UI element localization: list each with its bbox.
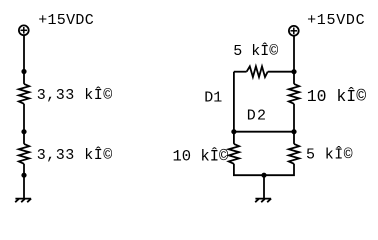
node right A (junction dot) (291, 69, 296, 74)
svg-text:3,33 kÎ©: 3,33 kÎ© (37, 146, 113, 164)
resistor R5 10 k (bottom left) (229, 144, 239, 164)
wire middle horizontal (234, 131, 294, 133)
wire horizontal top left stub (234, 71, 247, 73)
terminal V2 (+15VDC source, right) (289, 26, 299, 36)
node left C (junction dot) (21, 173, 26, 178)
wire bottom left corner (234, 164, 264, 175)
wire right rail lower (293, 132, 295, 144)
wire left rail middle (23, 104, 25, 144)
svg-text:10 kÎ©: 10 kÎ© (173, 147, 230, 165)
ground GND2 (right) (255, 199, 271, 203)
resistor R4 10 k (right rail) (289, 84, 299, 104)
wire right rail middle (293, 104, 295, 132)
wire left branch to R5 (233, 132, 235, 144)
node right D (junction dot) (261, 173, 266, 178)
resistor R6 5 k (bottom right) (289, 144, 299, 164)
wire left rail top (23, 36, 25, 84)
svg-text:5 kÎ©: 5 kÎ© (306, 146, 353, 164)
node left B (junction dot) (21, 129, 26, 134)
node left A (junction dot) (21, 69, 26, 74)
wire horizontal top right stub (268, 71, 294, 73)
svg-text:D2: D2 (247, 108, 267, 125)
terminal V1 (+15VDC source, left) (19, 25, 29, 35)
svg-text:5 kÎ©: 5 kÎ© (233, 42, 278, 60)
svg-text:10 kÎ©: 10 kÎ© (307, 87, 367, 106)
svg-text:+15VDC: +15VDC (38, 12, 94, 29)
wire left branch rail (233, 72, 235, 132)
resistor R2 3,33 k (19, 144, 29, 164)
node right C (junction dot) (291, 129, 296, 134)
svg-text:3,33 kÎ©: 3,33 kÎ© (37, 86, 113, 104)
wire bottom right corner (264, 164, 294, 175)
ground GND1 (left) (15, 199, 31, 203)
node right B (junction dot) (231, 129, 236, 134)
wire ground stem right (263, 175, 265, 198)
wire left rail bottom (23, 164, 25, 199)
svg-text:+15VDC: +15VDC (307, 12, 365, 29)
wire right rail top (293, 36, 295, 84)
svg-text:D1: D1 (204, 90, 222, 107)
resistor R1 3,33 k (19, 84, 29, 104)
resistor R3 5 k (horizontal) (247, 66, 268, 77)
